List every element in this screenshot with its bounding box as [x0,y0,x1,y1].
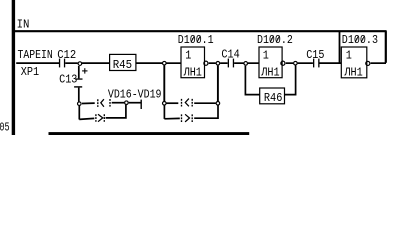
capacitor C13 polarity plus [82,68,87,73]
capacitor C15 label [306,48,324,62]
svg-text:C14: C14 [221,48,239,62]
svg-text:ЛН1: ЛН1 [344,65,363,79]
wire VD18 to node I [194,102,216,104]
svg-text:1: 1 [346,49,352,63]
inverter D100.2 label [257,33,293,47]
svg-text:D100.2: D100.2 [257,33,293,47]
inverter D100.1 [181,47,205,79]
svg-text:R46: R46 [264,91,283,105]
capacitor C14 [228,59,234,68]
wire IN net right drop [385,31,387,63]
diode VD16 [98,99,110,107]
node I junction [216,102,220,106]
svg-text:D100.1: D100.1 [178,33,214,47]
inverter D100.3 label zero slashes [355,36,364,43]
svg-text:05: 05 [0,121,10,135]
wire IN net horizontal [13,30,387,32]
wire node C down to node I [217,66,219,102]
svg-text:C13: C13 [59,72,77,86]
wire node B down to node H [163,66,165,102]
diode VD19 [182,114,193,122]
wire node H down [163,105,165,119]
node IN label [17,18,30,32]
wire node B to D100.1 [167,62,182,64]
inverter D100.3 [341,47,367,79]
wire C13 to node F [78,88,80,102]
node TAPEIN label [18,48,53,62]
node E junction [294,61,298,65]
inverter D100.2 [259,47,282,79]
wire node A to C13 [78,66,80,78]
svg-text:ЛН1: ЛН1 [183,65,202,79]
wire VD19 branch bottom right [194,105,218,118]
resistor R45 [110,54,136,72]
node H junction [163,102,167,106]
node F junction [78,102,82,106]
svg-text:VD16-VD19: VD16-VD19 [108,88,162,102]
capacitor C13 label [59,72,77,86]
svg-text:XP1: XP1 [21,65,39,79]
wire node D to D100.2 [248,62,259,64]
frame bar bottom [49,132,250,135]
svg-text:TAPEIN: TAPEIN [18,48,53,62]
inverter D100.1 output bubble [204,61,208,65]
connector XP1 label [21,65,39,79]
node B junction [163,61,167,65]
wire R45 to node B [136,62,162,64]
capacitor C12 label [57,48,76,62]
resistor R46 [260,88,285,105]
node D junction [244,62,248,66]
diodes VD16-VD19 label [108,88,162,102]
wire VD19 branch bottom left [164,117,179,119]
diode VD17 [96,114,104,122]
wire node G stub [129,102,141,104]
wire R46 to node E [285,66,296,95]
wire IN to D100.3 output [371,62,386,64]
wire node A to R45 [82,62,110,64]
wire VD16 to node G [112,102,125,104]
svg-text:C15: C15 [306,48,324,62]
svg-text:1: 1 [185,49,191,63]
wire C14 to node D [234,62,243,64]
svg-text:IN: IN [17,18,30,32]
terminal stub bar [140,100,142,109]
wire node C to C14 [220,62,228,64]
svg-text:D100.3: D100.3 [342,33,378,47]
frame border left [12,0,15,135]
inverter D100.1 label zero slashes [191,36,200,43]
wire node H to VD18 [167,102,179,104]
wire C15 to D100.3 [320,62,342,64]
wire node F to VD16 [82,102,95,104]
capacitor C14 label [221,48,239,62]
wire node F down [78,106,80,120]
wire VD17 branch bottom right [106,105,126,118]
svg-text:R45: R45 [113,58,132,72]
inverter D100.3 label [342,33,378,47]
sheet coordinate 05 [0,121,10,135]
capacitor C15 [313,59,320,68]
inverter D100.2 label zero slashes [270,36,279,43]
node G junction [125,101,129,105]
inverter D100.2 output bubble [281,61,285,65]
wire TAPEIN lead [16,62,59,64]
wire C12 to node A [65,62,78,64]
diode VD18 [182,99,193,107]
capacitor C12 [59,59,65,68]
wire node D down to R46 [245,66,259,95]
inverter D100.3 output bubble [366,61,370,65]
wire D100.2 to node E [286,62,293,64]
node C junction [216,62,220,66]
wire IN drop to D100.3 input [339,32,341,64]
svg-text:1: 1 [263,49,269,63]
svg-text:ЛН1: ЛН1 [260,65,279,79]
wire node E to C15 [298,62,313,64]
wire VD17 branch bottom left [79,118,94,119]
wire D100.1 to node C [209,62,216,64]
inverter D100.1 label [178,33,214,47]
node A junction [78,62,82,66]
capacitor C13 [74,78,82,87]
